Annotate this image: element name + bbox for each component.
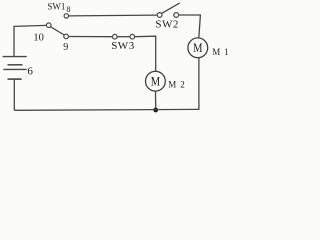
motor M2 [146,71,166,91]
svg-text:SW3: SW3 [111,40,135,52]
battery short plate 2 [8,78,22,80]
wire: M2 bottom to junction [155,91,157,110]
switch SW2 right contact [174,13,179,18]
svg-text:M: M [212,47,220,57]
svg-text:M: M [151,75,160,89]
wire: contact 8 to SW2 [69,14,158,17]
svg-text:M: M [168,79,176,89]
switch SW2 lever (open) [162,3,180,14]
battery long plate 1 [3,56,27,58]
switch SW1 contact 10 [46,23,51,28]
switch SW2 left contact [157,13,162,18]
switch SW3 right contact [130,34,135,39]
wire: contact 9 to SW3 [68,36,112,38]
switch SW1 lever (10 to 9) [51,27,64,35]
wire: right vertical bottom rail to M1 [198,58,200,110]
switch SW1 contact 9 [64,34,69,39]
svg-text:SW2: SW2 [155,19,179,31]
motor M1 [188,38,208,58]
switch SW3 closed blade [117,36,130,38]
svg-text:M: M [193,41,202,55]
wire: left vertical from top-left corner down to battery top plate [14,25,46,56]
svg-text:10: 10 [33,33,44,44]
svg-text:9: 9 [63,42,68,53]
junction node (dot) [153,108,158,113]
svg-text:SW1: SW1 [47,2,65,12]
wire: SW3 to M2 (corner) [135,36,156,71]
svg-text:6: 6 [27,65,33,77]
switch SW1 contact 8 (open throw) [64,14,68,18]
battery long plate 2 [3,68,26,70]
wire: bottom rail [14,108,199,111]
battery short plate 1 [8,64,23,66]
svg-text:2: 2 [180,79,185,89]
wire: battery bottom to bottom rail [13,79,15,110]
svg-text:8: 8 [66,5,70,14]
svg-text:1: 1 [224,47,229,57]
wire: M1 top to top-right corner [179,15,201,38]
switch SW3 left contact [113,34,118,39]
